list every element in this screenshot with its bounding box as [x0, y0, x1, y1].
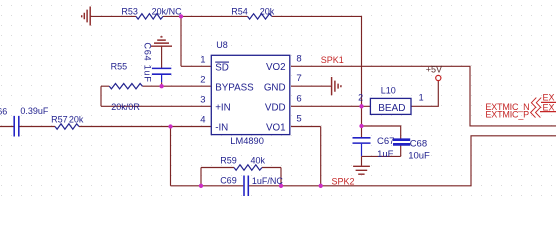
svg-text:1: 1	[200, 54, 205, 65]
svg-text:BEAD: BEAD	[378, 103, 405, 114]
svg-text:U8: U8	[216, 40, 228, 50]
svg-text:8: 8	[296, 53, 301, 64]
svg-text:VDD: VDD	[265, 102, 286, 113]
svg-text:GND: GND	[264, 82, 286, 93]
svg-text:SD: SD	[215, 62, 229, 73]
svg-text:R54: R54	[231, 7, 248, 17]
svg-text:20k/0R: 20k/0R	[111, 102, 140, 112]
svg-text:R59: R59	[220, 155, 237, 165]
svg-text:EX: EX	[543, 102, 555, 112]
svg-text:R57: R57	[51, 114, 68, 124]
svg-text:3: 3	[200, 94, 205, 105]
svg-text:0.39uF: 0.39uF	[20, 106, 49, 116]
svg-text:10uF: 10uF	[408, 150, 430, 161]
svg-text:2: 2	[200, 74, 205, 85]
svg-text:-IN: -IN	[215, 123, 228, 134]
svg-text:LM4890: LM4890	[230, 136, 264, 146]
svg-text:L10: L10	[381, 86, 396, 96]
svg-text:R55: R55	[111, 62, 128, 72]
svg-text:EXTMIC_P: EXTMIC_P	[485, 109, 529, 119]
svg-text:1uF: 1uF	[377, 149, 394, 160]
svg-text:66: 66	[0, 107, 7, 117]
svg-text:40k: 40k	[251, 155, 266, 165]
svg-text:1uF/NC: 1uF/NC	[252, 176, 284, 186]
svg-text:VO2: VO2	[266, 62, 286, 73]
svg-text:VO1: VO1	[266, 123, 286, 134]
svg-text:SPK1: SPK1	[321, 55, 344, 65]
svg-text:1: 1	[419, 93, 424, 103]
svg-text:7: 7	[296, 73, 301, 84]
svg-text:C67: C67	[377, 136, 394, 147]
svg-text:C64 1uF: C64 1uF	[142, 42, 152, 82]
svg-text:EX: EX	[543, 93, 555, 103]
svg-text:R53: R53	[121, 6, 138, 16]
svg-text:6: 6	[296, 93, 301, 104]
svg-text:BYPASS: BYPASS	[215, 82, 254, 93]
svg-text:20k/NC: 20k/NC	[152, 6, 183, 16]
svg-text:C69: C69	[220, 175, 237, 185]
svg-text:+IN: +IN	[215, 102, 231, 113]
svg-text:C68: C68	[410, 138, 427, 149]
svg-text:20k: 20k	[69, 114, 84, 124]
svg-text:SPK2: SPK2	[332, 176, 355, 186]
svg-text:20k: 20k	[260, 7, 275, 17]
svg-text:+5V: +5V	[426, 65, 442, 75]
svg-text:4: 4	[200, 115, 205, 126]
svg-text:5: 5	[296, 114, 301, 125]
svg-text:2: 2	[358, 93, 363, 103]
